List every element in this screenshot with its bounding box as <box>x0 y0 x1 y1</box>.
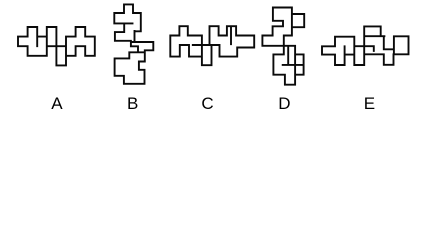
svg-text:D: D <box>278 94 290 113</box>
svg-text:E: E <box>364 94 375 113</box>
svg-text:A: A <box>51 94 63 113</box>
svg-text:C: C <box>201 94 213 113</box>
svg-text:B: B <box>127 94 138 113</box>
